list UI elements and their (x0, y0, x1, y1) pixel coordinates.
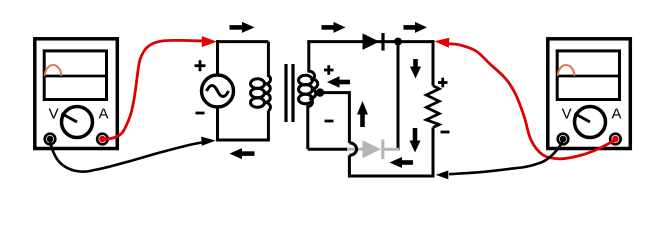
current arrow: primary top (right) (230, 22, 255, 33)
label: secondary + polarity (324, 65, 334, 75)
wire: node down to D2 cathode (397, 42, 400, 150)
wire: primary loop left (below source) (216, 107, 219, 142)
label: resistor - polarity (441, 131, 450, 134)
label: source - polarity (196, 112, 205, 115)
label: resistor + polarity (438, 78, 448, 88)
current arrow: secondary top before D1 (right) (322, 22, 346, 33)
svg-text:V: V (49, 106, 59, 123)
wire: bottom rail (348, 175, 435, 178)
wire: left meter red lead to primary (105, 36, 217, 139)
current arrow: primary bottom (left) (230, 148, 255, 159)
wire: center tap vertical (upper) (348, 91, 351, 143)
current arrow: center tap (left) (327, 76, 350, 87)
transformer T1 core (286, 64, 293, 122)
svg-text:A: A (98, 106, 108, 123)
multimeter M2 knob (575, 107, 606, 138)
AC source V1 (202, 75, 234, 107)
multimeter M2 red terminal (A) (610, 134, 621, 145)
node: junction dot after D1 (394, 38, 402, 46)
wire: secondary bottom to D2 anode (308, 148, 347, 151)
multimeter M1 needle-scale arc (45, 65, 62, 76)
transformer T1 primary winding lead (bottom) (267, 111, 270, 142)
multimeter M2 black terminal (V/common) (558, 134, 569, 145)
wire: secondary top rail to node (309, 40, 433, 43)
current arrow: after node (right) (404, 22, 428, 33)
current arrow: center tap branch (up) (357, 101, 368, 127)
transformer T1 secondary winding lead (bottom) (306, 105, 309, 149)
wire: center tap horizontal (320, 91, 349, 94)
multimeter M1 (left) body (35, 39, 118, 149)
label: secondary - polarity (325, 120, 334, 123)
current arrow: bottom toward center tap (left) (390, 157, 414, 168)
transformer T1 secondary winding lead (top) (307, 40, 310, 72)
multimeter M1 red terminal (A) (97, 134, 108, 145)
current arrow: out of resistor (down) (410, 128, 421, 153)
wire: left meter black lead to primary bottom (50, 137, 216, 172)
diode D1 (conducting, black) (363, 33, 384, 51)
wire: right meter black lead to bottom rail (436, 141, 563, 180)
current arrow: into resistor (down) (410, 59, 421, 79)
transformer T1 primary winding lead (top) (267, 42, 270, 77)
wire: primary loop top (218, 40, 269, 43)
multimeter M2 needle-scale arc (558, 65, 575, 76)
multimeter M2 (right) body (548, 39, 631, 149)
diode D2 (non-conducting, gray) (347, 140, 399, 160)
multimeter M1 black terminal (V/common) (45, 134, 56, 145)
transformer T1 center tap junction (316, 88, 324, 96)
transformer T1 secondary winding coil (299, 71, 318, 107)
wire: right meter red lead to node (434, 38, 615, 159)
wire: resistor branch top lead (432, 40, 435, 86)
transformer T1 primary winding coil (251, 76, 271, 111)
wire: primary loop left (above source) (216, 40, 219, 75)
svg-text:V: V (562, 106, 572, 123)
wire: primary loop bottom (218, 139, 269, 142)
multimeter M1 knob (62, 107, 93, 138)
wire: crossover hump over D2 branch (349, 143, 356, 155)
svg-text:A: A (611, 106, 621, 123)
wire: resistor bottom lead (432, 128, 435, 178)
multimeter M1 display (44, 51, 107, 100)
label: source + polarity (195, 60, 206, 71)
wire: center tap vertical (lower) (348, 155, 351, 177)
resistor R1 (426, 86, 439, 128)
multimeter M2 display (557, 51, 620, 100)
